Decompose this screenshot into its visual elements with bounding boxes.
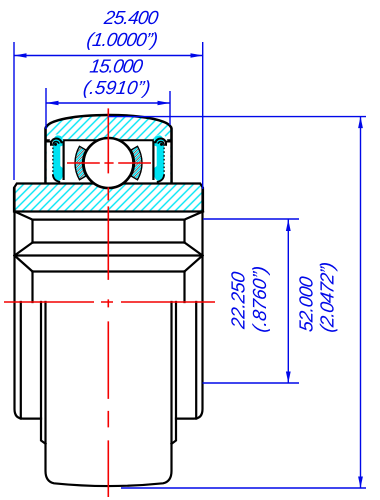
- svg-text:25.400: 25.400: [102, 8, 160, 29]
- svg-text:(.5910”): (.5910”): [82, 78, 152, 99]
- svg-text:22.250: 22.250: [229, 270, 250, 331]
- svg-text:(.8760”): (.8760”): [250, 265, 271, 334]
- svg-text:(1.0000”): (1.0000”): [85, 30, 159, 51]
- svg-text:(2.0472”): (2.0472”): [318, 261, 339, 334]
- svg-text:52.000: 52.000: [297, 275, 318, 333]
- svg-text:15.000: 15.000: [88, 57, 144, 78]
